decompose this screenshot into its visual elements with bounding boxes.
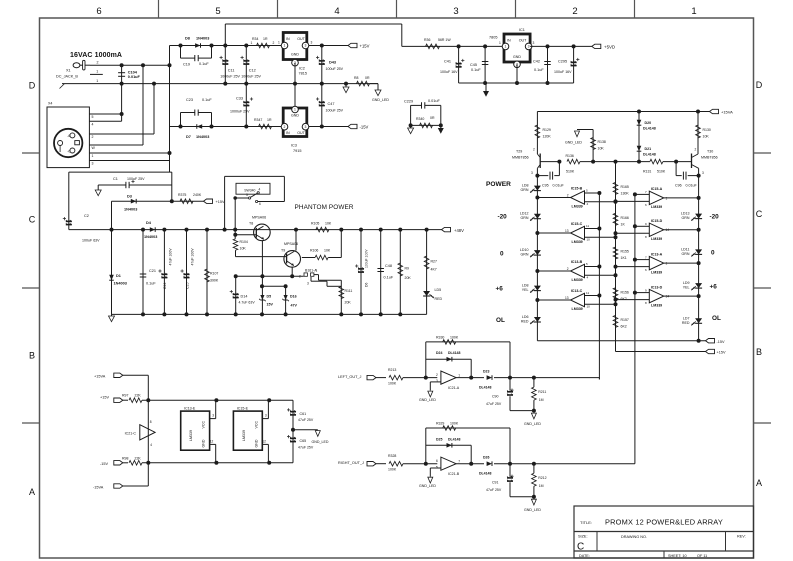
svg-text:C21: C21 [149, 269, 156, 273]
svg-text:C90: C90 [492, 395, 498, 399]
svg-text:IC21-A: IC21-A [448, 386, 460, 390]
svg-text:10K: 10K [598, 147, 605, 151]
svg-text:-20: -20 [498, 214, 508, 221]
svg-text:DRAWING NO.: DRAWING NO. [621, 535, 647, 539]
svg-text:+6: +6 [710, 284, 718, 291]
svg-text:C15: C15 [185, 283, 189, 289]
svg-text:0.1uF: 0.1uF [146, 282, 156, 286]
svg-text:IC2: IC2 [299, 67, 305, 71]
svg-text:D: D [756, 80, 763, 90]
svg-text:IC15-C: IC15-C [571, 222, 583, 226]
svg-text:R97: R97 [122, 394, 128, 398]
svg-text:C229: C229 [404, 100, 413, 104]
svg-text:R107: R107 [210, 272, 218, 276]
svg-text:0R: 0R [365, 76, 370, 80]
svg-text:16VAC 1000mA: 16VAC 1000mA [70, 52, 122, 59]
svg-text:7805: 7805 [489, 36, 497, 40]
svg-text:10K: 10K [703, 135, 710, 139]
svg-text:R111: R111 [345, 289, 353, 293]
svg-text:MMBT856: MMBT856 [701, 156, 718, 160]
svg-text:PHANTOM POWER: PHANTOM POWER [295, 204, 354, 211]
svg-text:R131: R131 [643, 170, 651, 174]
svg-text:0R: 0R [430, 116, 435, 120]
svg-text:1: 1 [505, 45, 507, 49]
svg-text:2: 2 [567, 267, 569, 271]
svg-text:GND_LED: GND_LED [524, 508, 541, 512]
svg-text:4K7: 4K7 [431, 268, 437, 272]
svg-text:R104: R104 [240, 240, 248, 244]
svg-text:IC21-C: IC21-C [125, 432, 137, 436]
svg-text:3: 3 [307, 282, 309, 286]
svg-text:IC13-B: IC13-B [571, 260, 583, 264]
svg-text:R213: R213 [388, 368, 396, 372]
svg-text:4: 4 [334, 6, 339, 17]
svg-text:1: 1 [458, 373, 460, 377]
svg-text:510K: 510K [657, 170, 666, 174]
svg-text:LD8: LD8 [522, 284, 529, 288]
svg-text:6K2: 6K2 [621, 297, 627, 301]
svg-text:LM339: LM339 [572, 307, 583, 311]
svg-text:1N4003: 1N4003 [196, 135, 209, 139]
svg-text:IN: IN [507, 39, 511, 43]
svg-text:20K: 20K [345, 301, 352, 305]
svg-text:10K: 10K [325, 222, 332, 226]
svg-text:47uF 25V: 47uF 25V [298, 446, 314, 450]
svg-text:4: 4 [587, 202, 589, 206]
svg-text:8: 8 [150, 420, 152, 424]
svg-text:C: C [577, 542, 584, 553]
svg-text:0.01uF: 0.01uF [686, 184, 698, 188]
svg-text:LD13: LD13 [681, 212, 690, 216]
svg-text:8: 8 [645, 235, 647, 239]
svg-text:MPSA06: MPSA06 [252, 216, 266, 220]
svg-text:LD5: LD5 [435, 288, 442, 292]
svg-text:1: 1 [278, 41, 280, 45]
svg-text:11: 11 [586, 291, 589, 295]
svg-text:510K: 510K [566, 170, 575, 174]
svg-text:IC15-A: IC15-A [651, 187, 663, 191]
svg-text:D14: D14 [241, 295, 248, 299]
svg-text:+15V: +15V [216, 200, 225, 204]
svg-text:SHEET: 10: SHEET: 10 [668, 554, 687, 558]
svg-text:C96: C96 [675, 184, 682, 188]
svg-text:1000uF 25V: 1000uF 25V [241, 75, 261, 79]
svg-text:2: 2 [97, 61, 99, 65]
svg-text:R9: R9 [405, 267, 410, 271]
svg-text:47uF 25V: 47uF 25V [486, 402, 502, 406]
svg-text:C19: C19 [183, 63, 190, 67]
svg-text:C12: C12 [249, 69, 256, 73]
svg-text:22K: 22K [135, 394, 142, 398]
svg-text:1M: 1M [539, 398, 544, 402]
svg-text:15V: 15V [267, 303, 274, 307]
svg-text:1000uF 25V: 1000uF 25V [230, 110, 250, 114]
svg-text:C45: C45 [470, 63, 477, 67]
svg-text:LM339: LM339 [572, 240, 583, 244]
svg-text:LM339: LM339 [572, 278, 583, 282]
svg-text:R105: R105 [311, 222, 319, 226]
svg-text:3: 3 [453, 6, 458, 17]
svg-text:0.1uF: 0.1uF [384, 276, 394, 280]
svg-text:0.1uF: 0.1uF [202, 98, 212, 102]
svg-text:YEL: YEL [522, 288, 529, 292]
svg-text:47uF 100V: 47uF 100V [169, 248, 173, 266]
svg-text:T9: T9 [281, 249, 285, 253]
svg-text:MPSA06: MPSA06 [284, 242, 298, 246]
svg-text:LD9: LD9 [683, 281, 690, 285]
svg-text:10: 10 [587, 305, 591, 309]
svg-text:1N4003: 1N4003 [144, 235, 157, 239]
svg-text:3: 3 [436, 379, 438, 383]
svg-text:6K2: 6K2 [621, 324, 627, 328]
svg-text:+5VD: +5VD [604, 45, 615, 50]
svg-text:GRN: GRN [682, 252, 690, 256]
svg-text:D25: D25 [436, 437, 442, 441]
svg-text:IC13-D: IC13-D [651, 285, 663, 289]
svg-text:0.01uF: 0.01uF [128, 75, 141, 79]
svg-text:GND: GND [291, 114, 299, 118]
svg-text:GRN: GRN [521, 253, 529, 257]
svg-text:+15VA: +15VA [94, 374, 106, 378]
svg-text:5: 5 [586, 262, 588, 266]
svg-text:100K: 100K [388, 382, 397, 386]
svg-text:240K: 240K [193, 193, 202, 197]
svg-text:7: 7 [645, 190, 647, 194]
svg-text:3: 3 [531, 171, 533, 175]
svg-text:B: B [29, 351, 35, 361]
svg-text:390K: 390K [210, 279, 219, 283]
svg-text:R130: R130 [703, 128, 711, 132]
svg-text:YEL: YEL [683, 286, 690, 290]
svg-text:1M: 1M [539, 484, 544, 488]
svg-text:3: 3 [212, 414, 214, 418]
svg-text:-6: -6 [67, 134, 70, 138]
svg-text:-15V: -15V [360, 125, 369, 130]
svg-text:7: 7 [458, 460, 460, 464]
svg-text:LM339: LM339 [651, 205, 662, 209]
svg-text:MMBT856: MMBT856 [512, 156, 529, 160]
svg-text:D21: D21 [645, 147, 652, 151]
svg-text:R34: R34 [252, 37, 258, 41]
svg-text:2: 2 [273, 41, 275, 45]
svg-text:1N4003: 1N4003 [124, 208, 137, 212]
svg-text:C: C [756, 209, 763, 219]
svg-text:R156: R156 [621, 290, 629, 294]
svg-text:LM339: LM339 [651, 303, 662, 307]
svg-text:3: 3 [702, 171, 704, 175]
svg-text:100K: 100K [450, 422, 459, 426]
svg-text:0: 0 [711, 250, 715, 257]
svg-text:GND: GND [254, 439, 258, 447]
svg-text:RED: RED [435, 297, 443, 301]
svg-text:C42: C42 [533, 60, 540, 64]
svg-text:C41: C41 [444, 60, 451, 64]
svg-text:IC21-B: IC21-B [448, 472, 460, 476]
svg-text:C295: C295 [558, 60, 567, 64]
svg-text:6: 6 [645, 268, 647, 272]
svg-text:IC13-E: IC13-E [184, 406, 196, 410]
svg-text:IC3: IC3 [291, 144, 297, 148]
svg-text:3: 3 [311, 41, 313, 45]
svg-text:R329: R329 [436, 422, 444, 426]
svg-text:-15VA: -15VA [93, 486, 104, 490]
svg-text:6: 6 [96, 6, 101, 17]
svg-text:47V: 47V [291, 304, 298, 308]
svg-text:1N4003: 1N4003 [114, 282, 127, 286]
svg-text:DL4148: DL4148 [643, 153, 656, 157]
svg-text:GND_LED: GND_LED [312, 440, 329, 444]
svg-text:100uF 25V: 100uF 25V [127, 177, 145, 181]
svg-text:DL4148: DL4148 [643, 127, 656, 131]
svg-text:6: 6 [436, 459, 438, 463]
svg-text:R375: R375 [178, 193, 186, 197]
svg-text:GRN: GRN [521, 188, 529, 192]
svg-text:5: 5 [92, 115, 94, 119]
svg-text:9: 9 [645, 222, 647, 226]
svg-text:1: 1 [92, 154, 94, 158]
svg-text:20K: 20K [405, 276, 412, 280]
svg-text:7915: 7915 [293, 149, 301, 153]
svg-text:C11: C11 [228, 69, 235, 73]
svg-text:D43: D43 [329, 61, 336, 65]
svg-text:10K: 10K [324, 249, 331, 253]
svg-text:IN: IN [286, 37, 290, 41]
svg-text:LD6: LD6 [522, 315, 529, 319]
svg-text:3: 3 [305, 125, 307, 129]
svg-text:0: 0 [500, 251, 504, 258]
svg-text:T8: T8 [249, 222, 253, 226]
svg-text:T30: T30 [707, 150, 713, 154]
svg-text:3: 3 [533, 41, 535, 45]
svg-text:+48V: +48V [454, 228, 464, 233]
svg-text:SW340: SW340 [244, 189, 255, 193]
svg-text:5: 5 [586, 189, 588, 193]
svg-text:R8: R8 [354, 76, 359, 80]
svg-text:100uF 100V: 100uF 100V [364, 249, 368, 268]
svg-text:100uF 16V: 100uF 16V [440, 70, 458, 74]
svg-text:R98: R98 [122, 456, 128, 460]
svg-text:GND_LED: GND_LED [565, 141, 582, 145]
svg-text:C47: C47 [328, 102, 335, 106]
svg-text:1: 1 [294, 108, 296, 112]
svg-text:3: 3 [246, 193, 248, 197]
svg-text:12: 12 [262, 439, 266, 443]
svg-text:R106: R106 [310, 249, 318, 253]
svg-text:100K: 100K [450, 335, 459, 339]
svg-text:1: 1 [96, 70, 98, 74]
svg-text:OUT: OUT [519, 39, 527, 43]
svg-text:3: 3 [305, 44, 307, 48]
svg-text:6: 6 [645, 203, 647, 207]
svg-text:-0: -0 [67, 150, 70, 154]
svg-text:1: 1 [96, 79, 98, 83]
svg-text:0.1uF: 0.1uF [471, 68, 481, 72]
svg-text:D26: D26 [483, 456, 489, 460]
svg-text:C14: C14 [163, 283, 167, 289]
svg-text:0.01uF: 0.01uF [553, 184, 565, 188]
svg-text:D3: D3 [127, 195, 132, 199]
svg-text:C33: C33 [236, 97, 243, 101]
svg-text:DL4148: DL4148 [448, 351, 461, 355]
svg-text:1R: 1R [267, 118, 272, 122]
svg-text:100uF 63V: 100uF 63V [82, 239, 100, 243]
svg-text:LM339: LM339 [242, 430, 246, 441]
svg-text:RIGHT_OUT_J: RIGHT_OUT_J [338, 461, 364, 465]
svg-text:D8: D8 [185, 37, 190, 41]
svg-text:D4: D4 [146, 221, 152, 225]
svg-text:IC13-A: IC13-A [651, 252, 663, 256]
svg-text:W: W [92, 146, 96, 150]
svg-text:LM339: LM339 [572, 205, 583, 209]
svg-text:REV:: REV: [737, 535, 746, 539]
svg-text:DL4148: DL4148 [448, 437, 461, 441]
svg-text:1000uF 25V: 1000uF 25V [220, 75, 240, 79]
svg-text:C104: C104 [128, 70, 138, 74]
svg-text:RED: RED [682, 321, 690, 325]
svg-text:VCC: VCC [254, 421, 258, 429]
svg-text:D16: D16 [290, 295, 297, 299]
svg-text:D7: D7 [186, 135, 191, 139]
svg-text:2: 2 [567, 193, 569, 197]
svg-text:2: 2 [284, 125, 286, 129]
svg-text:13: 13 [565, 296, 569, 300]
svg-text:100uF 25V: 100uF 25V [326, 67, 344, 71]
svg-text:47uF 100V: 47uF 100V [191, 248, 195, 266]
svg-text:4: 4 [92, 122, 94, 126]
svg-text:47uF 25V: 47uF 25V [298, 418, 314, 422]
svg-text:7: 7 [645, 255, 647, 259]
svg-text:LD8: LD8 [522, 184, 529, 188]
svg-text:D24: D24 [436, 351, 442, 355]
svg-text:GND_LED: GND_LED [524, 422, 541, 426]
svg-text:22K: 22K [135, 456, 142, 460]
svg-text:R157: R157 [621, 318, 629, 322]
svg-text:A: A [756, 478, 762, 488]
svg-text:1: 1 [316, 269, 318, 273]
svg-text:GND: GND [291, 53, 299, 57]
svg-text:LM339: LM339 [651, 270, 662, 274]
svg-text:GND_LED: GND_LED [419, 398, 436, 402]
svg-text:1: 1 [251, 41, 253, 45]
svg-text:5: 5 [436, 465, 438, 469]
svg-text:4: 4 [587, 276, 589, 280]
svg-text:8: 8 [645, 301, 647, 305]
svg-text:100uF 16V: 100uF 16V [554, 70, 572, 74]
svg-text:R155: R155 [621, 250, 629, 254]
svg-text:DC_JACK_B: DC_JACK_B [56, 75, 78, 79]
svg-text:5: 5 [215, 6, 220, 17]
svg-text:C48: C48 [385, 264, 392, 268]
svg-text:130K: 130K [621, 191, 630, 195]
svg-text:IN: IN [286, 131, 290, 135]
svg-text:GND_LED: GND_LED [372, 98, 389, 102]
svg-text:3: 3 [265, 414, 267, 418]
svg-text:R165: R165 [621, 185, 629, 189]
svg-text:OUT: OUT [297, 131, 305, 135]
svg-text:DL4148: DL4148 [479, 472, 492, 476]
svg-text:X1: X1 [66, 69, 71, 73]
svg-text:LD10: LD10 [520, 248, 529, 252]
svg-text:R27: R27 [431, 260, 437, 264]
svg-text:2: 2 [533, 148, 535, 152]
svg-text:SIZE:: SIZE: [578, 535, 588, 539]
svg-text:+15V: +15V [360, 44, 370, 49]
svg-text:R129: R129 [543, 128, 551, 132]
svg-text:4: 4 [259, 188, 261, 192]
svg-text:D1: D1 [116, 274, 121, 278]
svg-text:2: 2 [92, 135, 94, 139]
svg-text:0.1uF: 0.1uF [534, 68, 544, 72]
svg-text:T29: T29 [516, 150, 522, 154]
svg-text:3: 3 [528, 45, 530, 49]
svg-text:D5: D5 [267, 295, 272, 299]
svg-text:PROMX 12 POWER&LED ARRAY: PROMX 12 POWER&LED ARRAY [605, 518, 723, 527]
svg-text:IC15-E: IC15-E [237, 406, 249, 410]
svg-text:-15V: -15V [717, 340, 725, 344]
svg-text:LEFT_OUT_J: LEFT_OUT_J [338, 375, 362, 379]
svg-text:DATE:: DATE: [579, 554, 590, 558]
svg-text:+15V: +15V [717, 351, 726, 355]
svg-text:1K: 1K [621, 222, 626, 226]
svg-text:C95: C95 [542, 184, 549, 188]
svg-text:D: D [29, 81, 36, 91]
svg-text:C65: C65 [300, 439, 307, 443]
svg-text:D20: D20 [645, 121, 652, 125]
svg-text:LD7: LD7 [683, 316, 690, 320]
svg-text:R36: R36 [424, 38, 430, 42]
svg-text:-15V: -15V [100, 462, 108, 466]
svg-text:R347: R347 [254, 118, 262, 122]
svg-text:47uF 25V: 47uF 25V [486, 488, 502, 492]
svg-text:1: 1 [691, 6, 696, 17]
svg-text:GRN: GRN [521, 216, 529, 220]
svg-text:10K: 10K [240, 247, 247, 251]
svg-text:3: 3 [92, 162, 94, 166]
svg-text:C2: C2 [84, 214, 89, 218]
svg-text:R328: R328 [388, 454, 396, 458]
svg-text:1R: 1R [263, 37, 268, 41]
svg-text:R211: R211 [538, 390, 546, 394]
svg-text:6: 6 [259, 202, 261, 206]
svg-text:OL: OL [712, 315, 721, 322]
svg-text:LM339: LM339 [651, 237, 662, 241]
svg-text:R136: R136 [566, 154, 574, 158]
svg-text:4.7uF 63V: 4.7uF 63V [239, 301, 256, 305]
svg-text:1: 1 [284, 44, 286, 48]
svg-text:+15V: +15V [100, 395, 109, 399]
svg-text:GND: GND [513, 55, 521, 59]
svg-text:R340: R340 [416, 117, 424, 121]
svg-text:VCC: VCC [202, 421, 206, 429]
svg-text:13: 13 [565, 229, 569, 233]
svg-text:2: 2 [572, 6, 577, 17]
svg-text:56R 1W: 56R 1W [438, 38, 451, 42]
svg-text:B: B [756, 347, 762, 357]
svg-text:R138: R138 [598, 140, 606, 144]
svg-text:C61: C61 [300, 412, 307, 416]
svg-text:OF 11: OF 11 [697, 554, 707, 558]
svg-text:C91: C91 [492, 481, 498, 485]
svg-text:-20: -20 [710, 214, 720, 221]
svg-text:IC15-B: IC15-B [571, 187, 583, 191]
svg-text:IC1: IC1 [519, 28, 525, 32]
svg-text:C1: C1 [113, 177, 118, 181]
svg-text:GND: GND [202, 439, 206, 447]
svg-text:2: 2 [299, 275, 301, 279]
svg-text:R212: R212 [538, 476, 546, 480]
svg-text:12: 12 [210, 439, 214, 443]
svg-text:1N4003: 1N4003 [196, 37, 209, 41]
